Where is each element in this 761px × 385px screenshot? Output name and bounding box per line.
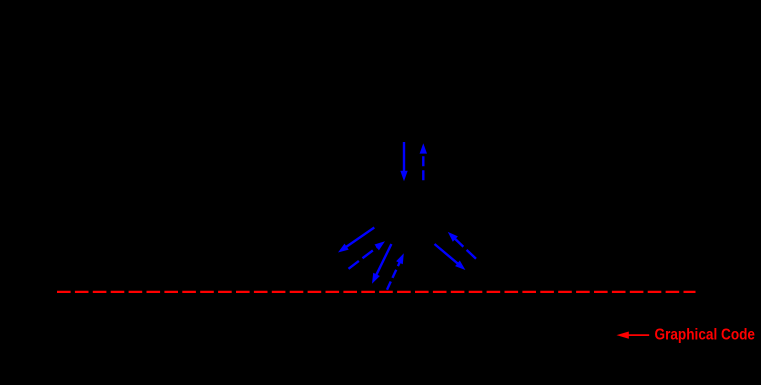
- surface line (red dashed horizontal): [57, 291, 696, 293]
- svg-text:Graphical Code: Graphical Code: [655, 327, 756, 344]
- scattered ray arrow (solid blue, steep down-left): [372, 244, 391, 284]
- recoil ray arrow (dashed blue, steep up-right): [387, 253, 404, 289]
- scattered ray arrow (solid blue, down-left): [338, 228, 374, 253]
- scattered ray arrow (solid blue, down-right): [435, 244, 466, 270]
- legend pointer arrow (red, pointing left): [617, 332, 650, 339]
- recoil ray arrow (dashed blue, up-left): [448, 232, 476, 259]
- incident beam arrow (solid blue, down): [400, 142, 407, 181]
- reflected beam arrow (dashed blue, up): [420, 143, 427, 180]
- recoil ray arrow (dashed blue, up-right, left pair): [349, 241, 386, 269]
